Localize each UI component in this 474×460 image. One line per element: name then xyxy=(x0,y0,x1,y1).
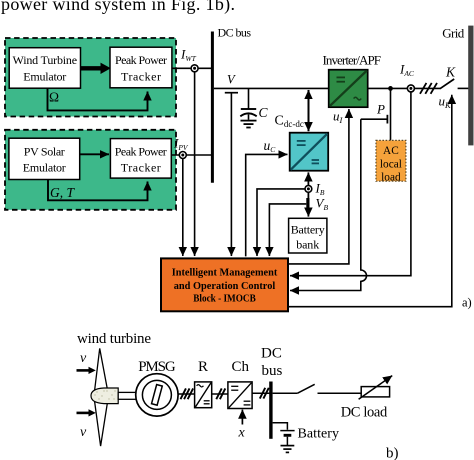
DC load resistor box xyxy=(361,387,389,397)
battery plates xyxy=(280,430,294,432)
wire: P sense line to IMOCB (hops over IAC line) xyxy=(290,119,367,290)
wire: PPT(wind) to DC bus xyxy=(172,67,212,69)
svg-text:uK: uK xyxy=(439,94,453,111)
svg-text:K: K xyxy=(445,65,456,80)
svg-text:load: load xyxy=(381,171,401,183)
grid bar xyxy=(468,26,473,146)
wire: DC bus to inverter xyxy=(214,87,329,89)
svg-text:local: local xyxy=(380,158,402,170)
hub speckle texture xyxy=(94,390,115,399)
ground (battery) xyxy=(281,445,295,447)
ground (capacitor) xyxy=(241,120,257,122)
inverter ac-side symbol ~ xyxy=(354,97,362,100)
wire: PPT(PV) to DC bus xyxy=(171,154,211,156)
wire: VB sense line to IMOCB xyxy=(269,204,306,256)
wire: x control arrow into chopper xyxy=(241,410,243,425)
wind arrow bottom xyxy=(77,412,89,415)
svg-text:Peak Power: Peak Power xyxy=(115,145,167,159)
node IB current sensor xyxy=(305,186,312,193)
WT emulator subsystem dashed green box xyxy=(5,38,176,117)
svg-text:C: C xyxy=(259,105,269,120)
wind turbine hub xyxy=(91,388,118,404)
svg-text:Ch: Ch xyxy=(232,359,250,375)
PMSG inner circle xyxy=(142,380,171,409)
wire: DC bus to battery xyxy=(273,423,288,430)
node IPV current sensor xyxy=(179,152,186,159)
wind turbine bottom blade xyxy=(95,402,108,447)
capacitor C lead xyxy=(248,88,250,108)
wire: inverter to grid line xyxy=(368,87,440,89)
shaft xyxy=(118,392,137,399)
svg-text:uC: uC xyxy=(264,138,277,154)
svg-text:Block - IMOCB: Block - IMOCB xyxy=(193,292,256,304)
svg-text:Emulator: Emulator xyxy=(23,161,66,175)
PMSG rotor bar xyxy=(152,385,163,406)
svg-text:wind turbine: wind turbine xyxy=(77,331,151,347)
svg-text:Inverter/APF: Inverter/APF xyxy=(323,53,382,68)
svg-text:v: v xyxy=(80,351,87,366)
switch blade (b) xyxy=(297,384,314,393)
svg-text:Battery: Battery xyxy=(298,427,340,442)
node IAC current sensor xyxy=(407,85,414,92)
svg-text:IPV: IPV xyxy=(173,136,189,153)
inverter diagonal xyxy=(330,71,367,107)
chopper Ch box xyxy=(228,382,252,409)
wire: P tap xyxy=(361,118,388,120)
wire: arrow PV emulator to Peak Power Tracker xyxy=(80,153,109,155)
wire: IWT sense line to IMOCB xyxy=(194,72,196,256)
wire: uC control from IMOCB to DC-DC converter xyxy=(246,154,288,256)
wire: switch to DC load xyxy=(318,392,362,394)
PV emulator subsystem dashed green box xyxy=(5,130,176,210)
rectifier R box xyxy=(195,382,212,408)
svg-text:Grid: Grid xyxy=(442,25,465,40)
svg-text:V: V xyxy=(227,73,236,87)
wire: PMSG to rectifier xyxy=(178,393,195,395)
block: IMOCB controller xyxy=(161,258,288,311)
svg-text:bank: bank xyxy=(296,238,319,252)
svg-text:and Operation Control: and Operation Control xyxy=(174,280,276,292)
inverter U: box xyxy=(329,70,368,108)
node IWT current sensor xyxy=(191,65,198,72)
P probe bar xyxy=(386,115,388,124)
svg-text:R: R xyxy=(198,359,208,375)
svg-text:G, T: G, T xyxy=(50,185,75,200)
wire: V sense line to IMOCB xyxy=(230,93,232,256)
wire: drop to AC local load xyxy=(390,88,392,140)
svg-text:a): a) xyxy=(462,296,472,310)
svg-text:Tracker: Tracker xyxy=(121,69,161,83)
wire: breaker to grid bar xyxy=(458,87,469,89)
VB probe bar xyxy=(306,198,309,211)
svg-text:Peak Power: Peak Power xyxy=(115,53,167,67)
wire: bidirectional link DC-DC converter to battery xyxy=(307,172,309,216)
wire: IAC sense line to IMOCB xyxy=(290,92,411,276)
svg-text:Ω: Ω xyxy=(49,90,59,105)
wire: DC bus to switch xyxy=(273,392,298,394)
svg-text:PMSG: PMSG xyxy=(138,359,176,375)
wire: Omega feedback WTE to PPT xyxy=(48,88,148,110)
wire: chopper to DC bus (b) xyxy=(252,392,271,394)
svg-text:x: x xyxy=(238,426,246,441)
svg-text:Intelligent Management: Intelligent Management xyxy=(172,266,278,278)
V probe bar xyxy=(225,92,238,94)
svg-text:power wind system in Fig. 1b).: power wind system in Fig. 1b). xyxy=(1,0,235,15)
svg-text:DC load: DC load xyxy=(341,405,388,421)
block: Peak Power Tracker (wind) xyxy=(110,47,172,88)
wire: uI control from IMOCB to inverter xyxy=(288,109,349,264)
DC load variable arrow xyxy=(359,376,393,400)
block: Battery bank xyxy=(289,218,327,253)
PMSG generator outer circle xyxy=(136,374,178,416)
svg-text:v: v xyxy=(80,425,87,440)
inverter dc-side symbol = xyxy=(337,76,346,78)
three-phase slashes xyxy=(420,83,426,94)
svg-text:uI: uI xyxy=(333,109,344,126)
svg-text:IAC: IAC xyxy=(399,62,415,79)
DC bus bar xyxy=(211,32,214,183)
svg-text:bus: bus xyxy=(262,363,283,379)
svg-text:DC bus: DC bus xyxy=(218,25,252,39)
DC bus bar (b) xyxy=(269,382,272,439)
breaker K blade xyxy=(440,79,454,89)
wire: uK control from IMOCB to breaker xyxy=(288,95,452,307)
wind arrow top xyxy=(77,369,89,372)
wire: IPV sense line to IMOCB xyxy=(182,159,184,257)
dc double slashes xyxy=(216,388,221,399)
block: Peak Power Tracker (PV) xyxy=(110,139,171,179)
DC-DC diagonal xyxy=(291,134,328,170)
DC-DC symbol = (top-left) xyxy=(297,140,306,142)
DC-DC symbol = (bottom-right) xyxy=(312,159,319,161)
wire: thick arrow WTE to Peak Power Tracker xyxy=(81,66,101,70)
block: Wind Turbine Emulator xyxy=(9,48,80,88)
svg-text:IWT: IWT xyxy=(180,47,197,64)
svg-text:AC: AC xyxy=(383,145,399,157)
capacitor C plates xyxy=(241,108,256,110)
svg-text:b): b) xyxy=(386,446,399,460)
wire: IB sense line to IMOCB xyxy=(257,189,305,256)
wire: G,T feedback PV to PPT xyxy=(48,180,148,201)
svg-text:Battery: Battery xyxy=(291,223,325,237)
svg-text:DC: DC xyxy=(261,346,282,362)
svg-text:PV Solar: PV Solar xyxy=(24,145,65,159)
svg-text:Emulator: Emulator xyxy=(23,69,66,83)
wire: rectifier to chopper xyxy=(212,393,228,395)
svg-text:Tracker: Tracker xyxy=(121,161,161,175)
wind turbine top blade xyxy=(95,348,108,390)
svg-text:VB: VB xyxy=(316,196,329,213)
dc double slashes xyxy=(260,388,265,399)
wire: bidirectional link DC bus to DC-DC converter xyxy=(308,90,310,131)
block: PV Solar Emulator xyxy=(9,138,80,179)
svg-text:Wind Turbine: Wind Turbine xyxy=(13,53,78,67)
junction (AC load tap) xyxy=(388,86,393,91)
three-phase slashes (machine side) xyxy=(181,388,186,399)
svg-text:Cdc-dc: Cdc-dc xyxy=(275,114,304,130)
block: AC local load xyxy=(376,140,406,181)
DC-DC converter: box xyxy=(290,133,329,171)
svg-text:P: P xyxy=(376,102,385,117)
